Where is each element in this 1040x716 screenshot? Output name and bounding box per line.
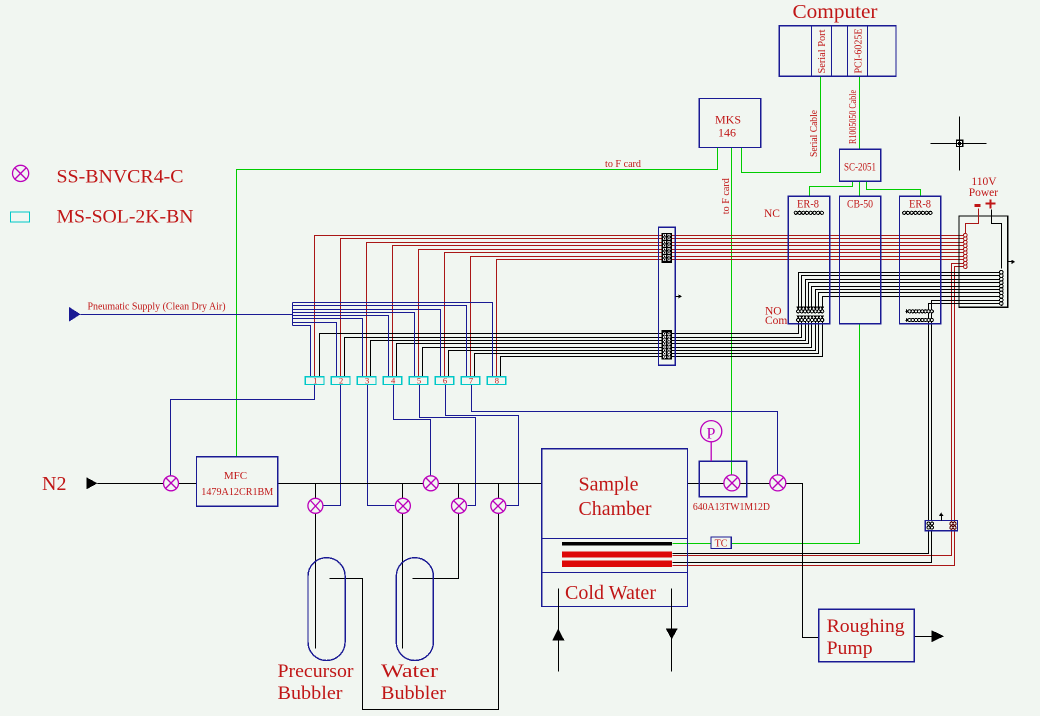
wire blue solenoid 7 to valve V8 (472, 385, 778, 475)
svg-text:Water: Water (381, 661, 439, 682)
wire main line V7 to valve V8 (740, 483, 770, 485)
wire blue pneumatic branch to solenoid 5 (293, 313, 415, 377)
svg-text:P: P (707, 426, 716, 443)
wire blue pneumatic branch to solenoid 4 (293, 316, 389, 377)
solenoid valve box 7 (461, 377, 480, 385)
heater bar 1 (562, 551, 672, 557)
110V power minus symbol (975, 204, 981, 207)
valve V6 bypass (491, 498, 506, 513)
svg-text:Sample: Sample (579, 475, 639, 496)
svg-text:to F card: to F card (605, 159, 642, 170)
wire black solenoid 5 to Com (423, 321, 812, 377)
svg-text:1: 1 (313, 376, 317, 386)
N2 source arrow (87, 477, 98, 489)
wire black heater 2 (673, 531, 932, 563)
wire main line N2 to valve V1 (98, 483, 164, 485)
wire main line chamber to throttle valve V7 (688, 483, 724, 485)
wire red solenoid 1 to 110V (315, 236, 964, 377)
wire black NO 2 to 110V (802, 276, 1000, 312)
valve V8 (770, 475, 786, 491)
wire green R1005050 cable Computer to SC-2051 (859, 77, 861, 150)
solenoid valve box 5 (409, 377, 428, 385)
wire black solenoid 7 to Com (475, 321, 819, 377)
wire black solenoid 2 to Com (345, 321, 802, 377)
cold water inlet arrow (552, 629, 564, 641)
roughing pump box (819, 609, 915, 661)
wire green serial-cable Computer to MKS146 (742, 77, 821, 173)
wire blue solenoid 3 to valve V3 (368, 385, 395, 506)
wire blue pneumatic supply line (81, 314, 293, 316)
svg-text:Serial Cable: Serial Cable (808, 110, 820, 157)
feedthrough connector box (659, 227, 676, 365)
valve V1 (164, 476, 179, 491)
wire red solenoid 4 to 110V (393, 246, 964, 377)
valve V2 precursor inlet (308, 498, 323, 513)
legend solenoid symbol MS-SOL-2K-BN (11, 212, 30, 222)
svg-text:Computer: Computer (793, 2, 879, 23)
wire main line MFC to valve V4 (278, 483, 424, 485)
solenoid valve box 6 (435, 377, 454, 385)
svg-text:MS-SOL-2K-BN: MS-SOL-2K-BN (57, 207, 194, 228)
wire water outlet to valve V5 (413, 514, 459, 579)
svg-text:ER-8: ER-8 (797, 199, 819, 211)
svg-text:1479A12CR1BM: 1479A12CR1BM (201, 487, 273, 498)
wire branch to water outlet valve V5 (458, 484, 460, 499)
pressure gauge P (701, 421, 722, 442)
wire blue solenoid 4 to valve V4 (394, 385, 431, 476)
wire red solenoid 3 to 110V (367, 243, 964, 377)
MFC box (197, 457, 278, 507)
sample chamber cold water divider (542, 572, 688, 574)
wire black solenoid 1 to Com (320, 321, 799, 377)
wire blue pneumatic bus (292, 303, 294, 326)
ER-8 no.1 box (788, 196, 829, 323)
computer slot divider 4 (867, 26, 869, 77)
solenoid valve box 3 (357, 377, 376, 385)
ER-8 no.1 NC terminal row (794, 211, 797, 214)
water bubbler (396, 558, 433, 661)
cold water outlet line (671, 589, 673, 672)
ER-8 no.1 NO terminal row (796, 307, 800, 310)
ER-8 no.2 NO terminal row (906, 311, 908, 313)
computer slot divider 2 (831, 26, 833, 77)
computer slot divider 1 (811, 26, 813, 77)
wire red solenoid 6 to 110V (445, 253, 964, 377)
SC-2051 box (840, 149, 881, 181)
svg-text:Roughing: Roughing (827, 616, 906, 637)
svg-text:Bubbler: Bubbler (278, 683, 344, 704)
wire red heater 1 to 110V (673, 264, 964, 556)
ER-8 no.1 Com terminal row (796, 315, 800, 318)
wire black NO 7 to 110V (819, 293, 1000, 312)
svg-text:N2: N2 (42, 473, 66, 495)
110V box side arrow (1008, 261, 1012, 263)
wire red solenoid 2 to 110V (341, 239, 964, 377)
thermocouple bar (562, 542, 672, 546)
wire black 110V plus feed (992, 210, 1002, 269)
wire red solenoid 8 to 110V (497, 260, 964, 377)
110V black terminal column (1000, 270, 1004, 274)
wire black ER-8 no.2 Com to 110V (929, 304, 1000, 521)
svg-text:to F card: to F card (721, 177, 732, 214)
solenoid valve box 1 (305, 377, 324, 385)
svg-text:5: 5 (417, 376, 421, 386)
feedthrough side arrow (676, 296, 679, 298)
svg-text:6: 6 (443, 376, 447, 386)
valve V4 main line (423, 476, 438, 491)
CB-50 box (840, 196, 881, 324)
valve V5 water outlet (452, 498, 467, 513)
wire black NO 5 to 110V (812, 287, 1000, 312)
throttle valve V7 640A13TW1M12D (724, 475, 740, 491)
svg-text:CB-50: CB-50 (847, 199, 873, 211)
wire green MKS146 to throttle valve (to F card) (731, 148, 733, 475)
110V power box (959, 216, 1008, 307)
solenoid valve box 4 (383, 377, 402, 385)
svg-text:SC-2051: SC-2051 (844, 162, 876, 174)
wire red heater 2 to 110V (673, 267, 964, 566)
svg-text:PCI-6025E: PCI-6025E (854, 29, 865, 74)
wire black solenoid 8 to Com (501, 321, 823, 377)
wire blue solenoid 1 to valve V1 (171, 385, 315, 476)
svg-text:Serial Port: Serial Port (817, 29, 828, 73)
wire black ER-8 no.2 NO to 110V (932, 301, 1000, 521)
svg-text:8: 8 (495, 376, 499, 386)
110V power plus symbol (986, 203, 996, 205)
svg-text:146: 146 (718, 126, 736, 140)
wire branch to bypass valve V6 (498, 484, 500, 499)
svg-text:Pneumatic Supply (Clean Dry Ai: Pneumatic Supply (Clean Dry Air) (88, 302, 226, 313)
pneumatic supply arrow (69, 307, 81, 322)
svg-text:640A13TW1M12D: 640A13TW1M12D (693, 502, 770, 513)
wire main line V4 to Sample Chamber (439, 483, 542, 485)
wire red solenoid 7 to 110V (471, 257, 964, 377)
wire blue solenoid 5 to valve V5 (420, 385, 476, 506)
svg-text:Cold Water: Cold Water (565, 583, 657, 604)
svg-text:Precursor: Precursor (278, 661, 355, 682)
heater terminal block (925, 521, 957, 531)
cold water outlet arrow (666, 629, 678, 640)
heater bar 2 (562, 561, 672, 567)
roughing pump exhaust arrow (932, 630, 945, 642)
svg-text:3: 3 (365, 376, 369, 386)
computer slot divider 3 (847, 26, 849, 77)
wire green SC-2051 to CB-50 (859, 182, 861, 197)
feedthrough upper contact block (662, 233, 672, 262)
svg-text:SS-BNVCR4-C: SS-BNVCR4-C (57, 167, 184, 188)
wire branch to precursor inlet valve V2 (315, 484, 317, 499)
svg-text:4: 4 (391, 376, 396, 386)
wire black NO 6 to 110V (816, 290, 1000, 312)
cold water inlet line (558, 589, 560, 672)
cursor pickbox (956, 140, 962, 146)
ER-8 no.2 box (900, 196, 941, 323)
wire red solenoid 5 to 110V (419, 250, 964, 377)
wire black NO 1 to 110V (799, 273, 1000, 312)
precursor bubbler (308, 558, 345, 661)
ER-8 no.2 NC terminal row (903, 211, 906, 214)
heater terminal block arrow (941, 516, 943, 521)
wire blue pneumatic branch to solenoid 1 (293, 326, 311, 377)
ER-8 no.2 Com terminal row (906, 320, 908, 322)
svg-text:Chamber: Chamber (579, 499, 653, 520)
wire blue pneumatic branch to solenoid 6 (293, 310, 441, 377)
wire black NO 4 to 110V (809, 283, 1000, 312)
svg-text:Power: Power (969, 187, 999, 199)
svg-text:Bubbler: Bubbler (381, 683, 447, 704)
svg-text:MKS: MKS (715, 113, 741, 127)
wire precursor dip tube (315, 514, 317, 649)
wire branch to water inlet valve V3 (402, 484, 404, 499)
110V red terminal column (964, 233, 968, 237)
wire roughing pump exhaust (915, 636, 932, 638)
wire water dip tube (402, 514, 404, 649)
wire precursor outlet to bypass valve V6 (330, 514, 499, 710)
wire black solenoid 6 to Com (449, 321, 816, 377)
sample chamber heater divider (542, 538, 688, 540)
svg-text:TC: TC (715, 538, 728, 549)
wire blue pneumatic branch to solenoid 2 (293, 323, 337, 377)
svg-text:MFC: MFC (224, 470, 247, 482)
wire blue pneumatic branch to solenoid 8 (293, 303, 493, 377)
sample chamber box (542, 449, 688, 607)
wire black solenoid 4 to Com (397, 321, 809, 377)
svg-text:R1005050 Cable: R1005050 Cable (848, 90, 859, 144)
wire green SC-2051 to ER-8 no.2 (867, 182, 921, 197)
wire black NO 3 to 110V (806, 280, 1000, 312)
wire black solenoid 3 to Com (371, 321, 806, 377)
wire green MKS146 left output to F card (237, 148, 718, 457)
solenoid valve box 8 (487, 377, 506, 385)
solenoid valve box 2 (331, 377, 350, 385)
wire blue pneumatic branch to solenoid 7 (293, 306, 467, 377)
svg-text:2: 2 (339, 376, 343, 386)
valve V3 water inlet (395, 498, 410, 513)
cursor crosshair (931, 143, 987, 145)
svg-text:Pump: Pump (827, 638, 873, 659)
wire green SC-2051 to ER-8 no.1 (810, 182, 853, 197)
wire blue solenoid 2 to valve V2 (324, 385, 341, 506)
svg-text:7: 7 (469, 376, 473, 386)
wire blue pneumatic branch to solenoid 3 (293, 319, 363, 377)
wire green CB-50 to TC (732, 324, 860, 544)
wire black heater 1 (673, 531, 929, 554)
wire red 110V minus feed (966, 209, 979, 234)
wire main line V8 to roughing pump (786, 484, 819, 638)
svg-text:ER-8: ER-8 (909, 199, 931, 211)
svg-text:NC: NC (764, 208, 780, 220)
feedthrough lower contact block (662, 330, 672, 359)
wire main line V1 to MFC (179, 483, 197, 485)
svg-text:Com: Com (765, 315, 787, 327)
TC box (711, 537, 731, 549)
wire black NO 8 to 110V (823, 297, 1000, 312)
MKS 146 controller box (699, 99, 760, 148)
wire blue solenoid 6 to valve V6 (446, 385, 519, 506)
computer box (779, 26, 896, 76)
wire green TC to thermocouple bar (673, 543, 711, 545)
throttle valve box (699, 461, 746, 496)
